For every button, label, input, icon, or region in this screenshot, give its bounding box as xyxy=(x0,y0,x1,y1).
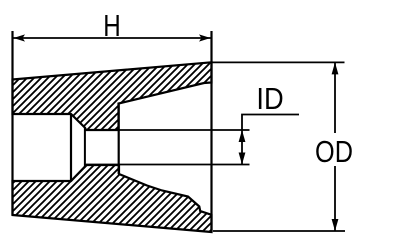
dimension OD: arrow line (broken for label) xyxy=(334,62,336,133)
svg-text:H: H xyxy=(103,8,120,43)
dimension H: label text xyxy=(103,8,120,43)
svg-text:OD: OD xyxy=(315,133,353,168)
dimension H: right arrowhead xyxy=(199,34,211,41)
dimension OD: top extension line xyxy=(212,61,345,63)
dimension OD: bottom arrowhead xyxy=(332,219,339,231)
ID bore line top (edge + extension) xyxy=(86,129,250,131)
section body: upper hatched band xyxy=(13,62,212,130)
dimension ID: leader line xyxy=(242,115,299,131)
dimension H: left arrowhead xyxy=(14,34,26,41)
dimension H: arrow line xyxy=(13,37,211,39)
dimension OD: bottom extension line xyxy=(213,230,345,232)
dimension OD: top arrowhead xyxy=(332,62,339,74)
bore mouth transition edge xyxy=(84,128,86,167)
right face / H extension line xyxy=(210,31,212,232)
svg-text:ID: ID xyxy=(256,82,283,116)
dimension OD: label text xyxy=(315,133,353,168)
dimension ID: double arrow xyxy=(239,130,246,165)
nozzle tip face edge xyxy=(118,104,120,175)
counterbore back wall edge xyxy=(70,114,72,181)
left face / H extension line xyxy=(11,31,13,215)
section body: lower hatched band xyxy=(13,165,212,232)
ID bore line bottom (edge + extension) xyxy=(86,164,250,166)
dimension ID: label text xyxy=(256,82,283,116)
